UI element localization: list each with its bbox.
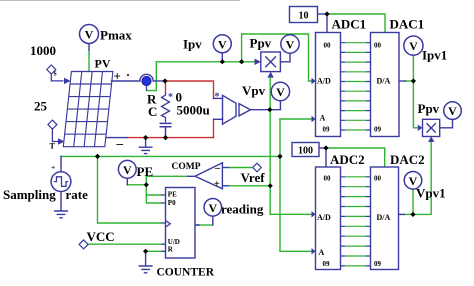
multiplier K1 <box>261 52 281 72</box>
svg-text:DAC1: DAC1 <box>390 17 425 32</box>
svg-text:C: C <box>148 104 157 119</box>
junction node sampling to ADC A pins <box>277 154 282 159</box>
svg-text:*: * <box>215 92 220 103</box>
junction node 100-box / ADC2 clock <box>323 145 328 150</box>
multiplier K2 <box>423 119 440 136</box>
svg-text:*: * <box>168 92 173 103</box>
wire PV plus to current sensor <box>112 80 141 82</box>
svg-text:10: 10 <box>299 10 309 21</box>
svg-text:T: T <box>50 142 56 151</box>
svg-text:rate: rate <box>66 187 89 202</box>
svg-text:A: A <box>319 248 325 257</box>
wire 10-box to junction <box>318 13 328 15</box>
wire PE probe tap <box>127 184 146 186</box>
junction node sampling to counter clock <box>95 154 100 159</box>
svg-text:V: V <box>218 37 227 51</box>
junction node Ipv probe tap <box>220 59 225 64</box>
junction node PE probe tap <box>144 182 149 187</box>
svg-text:+: + <box>51 163 55 172</box>
wire comparator plus stub <box>222 185 228 187</box>
wire 100-box to DAC2 clock <box>326 148 385 167</box>
ADC2 block <box>316 167 341 270</box>
T input flag <box>48 120 57 129</box>
svg-text:00: 00 <box>324 42 332 50</box>
wire Pmax probe stub <box>88 44 90 51</box>
svg-text:D/A: D/A <box>377 77 391 86</box>
wire Pmax probe to PV top <box>88 50 90 72</box>
voltage sensor U-Vpv <box>223 95 251 124</box>
svg-text:V: V <box>286 38 295 52</box>
wire Vpv probe stub <box>270 101 280 110</box>
wire comparator plus input <box>229 185 271 187</box>
top border line <box>0 0 240 2</box>
svg-text:COMP: COMP <box>172 162 201 172</box>
probe reading <box>204 199 222 217</box>
svg-text:–: – <box>116 136 124 151</box>
svg-text:Sampling: Sampling <box>3 187 56 202</box>
svg-text:00: 00 <box>374 42 382 50</box>
wire red minus rail <box>127 137 214 139</box>
svg-text:09: 09 <box>374 126 382 134</box>
svg-text:reading: reading <box>221 202 264 217</box>
wire DAC1 output down to multiplier2 <box>406 80 414 82</box>
svg-text:100: 100 <box>298 145 313 156</box>
svg-text:Vref: Vref <box>241 170 266 185</box>
wire sampling vertical to ADC A pins <box>279 119 281 251</box>
svg-text:ADC1: ADC1 <box>332 17 367 32</box>
svg-text:ADC2: ADC2 <box>330 152 365 167</box>
junction node comparator plus on Vpv line <box>268 183 273 188</box>
wire multiplier2 output to Ppv1 probe <box>440 119 453 127</box>
svg-text:V: V <box>123 163 132 177</box>
wire 10-box to DAC1 clock <box>327 14 385 33</box>
svg-text:Vpv1: Vpv1 <box>416 186 446 201</box>
wire VCC to counter U/D <box>89 243 162 245</box>
svg-text:–: – <box>214 163 221 174</box>
probe Ppv1 <box>444 102 462 120</box>
svg-text:1000: 1000 <box>30 43 56 58</box>
junction node at 10-box / ADC1 clock <box>324 11 329 16</box>
flag Vref <box>253 163 262 172</box>
wire 100-box to junction <box>319 147 326 149</box>
svg-text:PV: PV <box>95 56 111 70</box>
flag VCC <box>79 240 88 249</box>
wire red node to sensor top <box>165 81 214 98</box>
resistor R <box>162 93 170 122</box>
wire red sensor bottom to minus rail <box>213 119 215 137</box>
wire PV minus stub <box>106 137 127 139</box>
wire sampling vertical to counter clock <box>98 156 162 223</box>
wire PE probe stub <box>126 178 128 185</box>
wire sampling-rate main horizontal <box>61 155 280 157</box>
wire Ipv probe stub <box>221 53 223 62</box>
probe Ipv1 <box>404 36 423 55</box>
svg-text:+: + <box>114 69 121 84</box>
svg-text:Vpv: Vpv <box>242 83 266 98</box>
ground counter <box>139 266 153 273</box>
svg-text:DAC2: DAC2 <box>390 152 425 167</box>
DAC2 block <box>371 167 399 270</box>
probe PE <box>118 160 136 178</box>
counter COUNTER <box>166 188 196 259</box>
bus ADC2-DAC2 <box>341 177 371 266</box>
svg-text:V: V <box>448 104 457 118</box>
svg-text:V: V <box>276 85 285 99</box>
wire sensor input stubs <box>214 97 223 99</box>
wire comparator minus to Vref <box>229 167 253 169</box>
wire sampling source to ground <box>60 192 62 211</box>
probe Ppv <box>281 35 299 53</box>
wire comparator minus stub <box>222 167 228 169</box>
wire Ipv signal from current sensor <box>147 62 257 91</box>
svg-text:PE: PE <box>168 191 177 199</box>
wire counter R to ground <box>145 251 147 265</box>
wire counter R to ground tap <box>146 250 162 252</box>
svg-text:09: 09 <box>323 126 331 134</box>
wire reading probe stub <box>212 216 214 225</box>
wire sampling source stub <box>60 156 62 171</box>
wire comparator output to counter <box>146 176 188 203</box>
wire to ADC2 A pin <box>280 250 312 252</box>
svg-text:Ppv: Ppv <box>418 101 440 116</box>
svg-text:A/D: A/D <box>317 77 331 86</box>
svg-text:Ipv: Ipv <box>183 37 202 52</box>
svg-text:VCC: VCC <box>87 229 115 244</box>
wire red RC branch top lead <box>165 81 167 93</box>
DAC1 block <box>371 33 400 137</box>
wire ADC2 clock stub <box>325 148 327 167</box>
current sensor <box>140 74 153 81</box>
PV module PV <box>63 72 113 147</box>
wire DAC2 output to multiplier2 bottom <box>404 213 413 215</box>
comparator COMP <box>195 163 222 189</box>
svg-text:00: 00 <box>374 175 382 183</box>
svg-text:V: V <box>409 39 418 53</box>
svg-text:s: s <box>54 69 57 78</box>
wire Vpv net vertical <box>269 76 271 110</box>
S input flag <box>47 65 56 74</box>
svg-text:A: A <box>320 114 326 123</box>
svg-text:P0: P0 <box>168 199 176 207</box>
ground main <box>139 147 153 153</box>
wire comparator output stub <box>188 175 195 177</box>
junction node DAC2 output / Vpv1 <box>410 212 415 217</box>
svg-text:Pmax: Pmax <box>100 28 132 43</box>
svg-text:Ppv: Ppv <box>250 36 272 51</box>
probe Pmax <box>80 25 99 44</box>
wire multiplier1 output to Ppv probe <box>280 53 290 62</box>
wire main ground tap <box>145 138 147 147</box>
junction node counter R to ground <box>143 249 148 254</box>
svg-text:+: + <box>214 179 220 190</box>
wire counter output to reading probe <box>199 224 213 226</box>
junction node Ipv to ADC1 branch <box>239 59 244 64</box>
svg-text:09: 09 <box>323 260 331 268</box>
junction node RC branch on minus rail <box>163 135 168 140</box>
constant box 10 <box>290 7 318 23</box>
junction node DAC1 output / Ipv1 <box>411 78 416 83</box>
constant box 100 <box>292 143 319 157</box>
probe Vpv1 <box>404 172 422 190</box>
wire Vpv down to comparator and ADC2 <box>270 110 312 215</box>
wire ADC1 clock stub <box>326 14 328 33</box>
svg-text:PE: PE <box>137 164 154 179</box>
probe Vpv <box>271 82 289 100</box>
wire DAC1 output stub <box>398 80 405 82</box>
svg-text:V: V <box>85 28 94 42</box>
svg-text:5000u: 5000u <box>177 103 210 118</box>
wire Ipv up-over to ADC1 input <box>242 34 312 81</box>
svg-text:COUNTER: COUNTER <box>157 267 215 279</box>
svg-text:V: V <box>208 201 217 215</box>
source Sampling rate <box>51 172 71 192</box>
junction node ground tap on minus rail <box>143 135 148 140</box>
svg-text:D/A: D/A <box>377 213 391 222</box>
svg-text:Ipv1: Ipv1 <box>422 48 447 63</box>
junction node PV+ / RC / sensor <box>162 78 167 83</box>
svg-text:00: 00 <box>324 175 332 183</box>
probe Ipv <box>213 35 231 53</box>
capacitor C <box>160 123 172 137</box>
junction node Vpv probe tap <box>267 107 272 112</box>
wire counter output stub <box>195 224 199 226</box>
wire to ADC1 A pin <box>280 118 312 120</box>
wire current sensor to node <box>153 80 165 82</box>
ground sampling <box>54 211 68 218</box>
wire DAC2 output stub <box>399 213 405 215</box>
svg-text:25: 25 <box>34 99 48 114</box>
bus ADC1-DAC1 <box>341 43 371 130</box>
svg-text:A/D: A/D <box>317 213 331 222</box>
wire to counter PE pin <box>146 194 161 196</box>
svg-text:09: 09 <box>374 260 382 268</box>
ADC1 block <box>316 33 341 137</box>
wire voltage sensor output <box>251 109 270 111</box>
